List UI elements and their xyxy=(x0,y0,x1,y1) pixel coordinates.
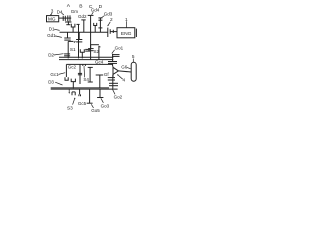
gear Go3 mesh bar xyxy=(97,97,103,99)
svg-text:Gd2: Gd2 xyxy=(78,14,87,19)
axis B gear bar xyxy=(81,19,85,21)
synchro S2 drum left wall xyxy=(90,45,92,60)
leader from Go1 xyxy=(112,50,115,54)
leader from Gd4 xyxy=(92,12,94,15)
leader arrow from S3 xyxy=(73,99,75,105)
sleeve cup between C and D xyxy=(94,23,97,26)
leader from D2 xyxy=(54,54,64,55)
axis A stem xyxy=(67,21,69,25)
leader arrow from 2 to damper xyxy=(108,22,110,26)
axis C line xyxy=(90,15,92,32)
leader line from 1 to ENG box xyxy=(125,21,127,27)
axis C top bar xyxy=(88,14,94,16)
gear Gd1 stem below input shaft xyxy=(67,32,69,38)
axis C mesh bars xyxy=(88,48,94,50)
svg-text:Go5: Go5 xyxy=(91,108,100,113)
axis C lower line to counter shaft xyxy=(90,32,92,48)
output lower shaft upper line xyxy=(51,87,109,89)
svg-text:Gc1: Gc1 xyxy=(50,72,59,77)
gear column stem to lower shaft xyxy=(99,75,101,88)
gear Go2 stem through bars xyxy=(112,75,114,89)
svg-text:2: 2 xyxy=(110,17,113,22)
differential capsule xyxy=(131,62,136,81)
svg-text:S1: S1 xyxy=(70,47,76,52)
axis A gear upper bar xyxy=(65,21,72,23)
leader from G6 xyxy=(127,67,131,68)
svg-text:S2: S2 xyxy=(93,49,99,54)
clutch Gc2 sleeve cup xyxy=(65,77,68,80)
axis A gear lower bar xyxy=(66,24,70,26)
svg-text:G6: G6 xyxy=(121,64,128,69)
sleeve Y cup on lower shaft xyxy=(71,79,75,82)
svg-text:S4: S4 xyxy=(83,77,89,82)
gear Gd1 mesh bars xyxy=(64,37,70,39)
differential output line xyxy=(118,71,131,72)
S2 left mesh bars xyxy=(85,48,90,50)
svg-text:B: B xyxy=(79,4,82,10)
synchro S1 drum top bar xyxy=(68,40,73,42)
counter shaft 1 upper line xyxy=(59,56,113,58)
svg-text:Gc2: Gc2 xyxy=(68,64,77,69)
sleeve cup below lower shaft xyxy=(71,92,73,95)
leader from Go2 xyxy=(112,89,115,95)
leader to Go3 label xyxy=(101,98,104,103)
S2 leader arrowhead xyxy=(99,46,101,47)
synchro S1 drum right wall xyxy=(78,24,80,58)
gear column T bar xyxy=(96,74,104,76)
engine ENG box xyxy=(117,28,135,38)
svg-text:5: 5 xyxy=(132,54,135,59)
leader from Gd3 xyxy=(102,16,105,18)
svg-text:D2: D2 xyxy=(48,52,54,57)
final drive stem xyxy=(112,63,114,66)
leader from Gc1 xyxy=(59,73,66,75)
gear Go3 stem xyxy=(99,89,101,97)
sleeve stem to input shaft xyxy=(72,27,74,32)
sleeve cup right of S1 drum xyxy=(80,49,84,52)
gear Gc1 mesh bars on counter shaft xyxy=(64,53,70,55)
final gear mesh bars below bevel xyxy=(108,77,115,79)
svg-text:Go3: Go3 xyxy=(101,103,110,108)
synchro S2 drum right wall xyxy=(98,46,100,60)
motor gear mesh pair 2 xyxy=(67,15,69,21)
svg-text:D1: D1 xyxy=(49,26,55,31)
sleeve stem to input shaft xyxy=(94,26,96,33)
svg-text:3: 3 xyxy=(51,8,54,13)
damper (two plates) on input shaft xyxy=(107,28,109,37)
svg-text:MG: MG xyxy=(48,17,56,22)
input shaft engine side xyxy=(110,31,117,33)
gear Go1 stem xyxy=(112,54,114,62)
axis B line xyxy=(83,20,85,33)
sleeve stem to counter shaft xyxy=(81,52,83,58)
svg-text:D3: D3 xyxy=(48,80,54,85)
clutch Gc5 drum right wall xyxy=(89,89,91,103)
gear Gd2 stem below input shaft xyxy=(78,32,80,39)
svg-text:Go1: Go1 xyxy=(115,46,124,51)
gear Gd2 mesh bars xyxy=(76,39,82,41)
leader from 5 xyxy=(132,59,134,62)
svg-text:4: 4 xyxy=(123,77,126,82)
synchro S2 drum top bar xyxy=(91,44,99,46)
axis D top bar xyxy=(98,17,102,19)
axis D line xyxy=(99,18,101,33)
gear Go2 mesh bars xyxy=(109,82,118,84)
clutch Gc2 drum left wall xyxy=(65,64,67,77)
svg-text:Gd3: Gd3 xyxy=(104,11,113,16)
final gear mesh bars upper xyxy=(108,61,117,63)
svg-text:Gc4: Gc4 xyxy=(95,59,104,64)
motor-generator MG box xyxy=(47,16,59,22)
counter shaft 1 lower line xyxy=(59,59,113,61)
sleeve Y stem xyxy=(72,82,74,89)
gear mesh bars on Gc2 drum right xyxy=(78,72,82,74)
leader from D1 xyxy=(54,29,60,30)
output lower shaft lower line xyxy=(51,88,118,90)
svg-text:Gc5: Gc5 xyxy=(78,101,87,106)
gear bar on drum wall xyxy=(77,23,80,25)
leader from D3 xyxy=(55,82,62,85)
gear Go1 mesh bars upper xyxy=(112,54,120,56)
motor gear mesh pair 1 xyxy=(62,16,64,21)
sleeve cup on input shaft (axis A) xyxy=(71,24,75,27)
bevel pinion triangle xyxy=(112,66,114,77)
counter shaft 2 xyxy=(66,63,112,65)
clutch Gc5 drum left wall xyxy=(79,89,81,94)
svg-text:Gf: Gf xyxy=(104,72,110,77)
synchro S1 drum left wall xyxy=(67,41,69,58)
svg-text:Go2: Go2 xyxy=(114,95,123,100)
Gc5 drum bottom bar xyxy=(87,102,93,104)
gear column I-beam on axis B lower xyxy=(89,67,91,82)
dog clutch D4 upper bar xyxy=(98,19,102,21)
small sleeve ticks under left wall xyxy=(78,94,80,96)
svg-text:Gd1: Gd1 xyxy=(47,33,56,38)
sleeve cup S4 on counter shaft 2 xyxy=(82,64,84,66)
input shaft (main) xyxy=(60,31,108,33)
MG rotor shaft xyxy=(59,17,71,19)
leader from Go5 xyxy=(91,104,93,108)
leader from D4 xyxy=(62,13,64,15)
svg-text:S3: S3 xyxy=(67,106,73,111)
svg-text:Gd4: Gd4 xyxy=(91,8,100,13)
clutch Gc2 drum right wall xyxy=(79,64,81,84)
S4 leader arrow xyxy=(83,68,86,77)
dog clutch D4 lower bar xyxy=(98,27,102,29)
leader from Gd1 xyxy=(55,36,62,38)
svg-text:ENG: ENG xyxy=(121,31,132,37)
leader arrow from 3 to MG box xyxy=(51,13,52,15)
svg-text:1: 1 xyxy=(125,17,128,22)
sleeve stem with arrow on lower shaft xyxy=(68,89,70,93)
S1 leader arrowhead xyxy=(74,42,75,43)
leader arrow from 4 xyxy=(118,75,123,79)
